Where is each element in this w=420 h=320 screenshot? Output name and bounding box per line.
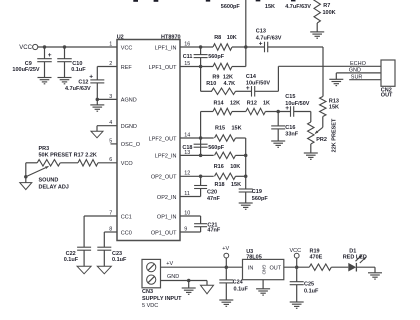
wire C22 to ground [83, 250, 85, 266]
capacitor C15 (electrolytic) [290, 106, 292, 117]
svg-text:4.7uF/63V: 4.7uF/63V [256, 36, 282, 42]
svg-text:OP1_OUT: OP1_OUT [151, 230, 177, 236]
wire AGND to ground [96, 99, 98, 105]
svg-text:C11: C11 [183, 54, 193, 60]
wire C23 to ground [103, 250, 105, 266]
wire C15 to PR2 [294, 111, 311, 113]
svg-text:0.1uF: 0.1uF [304, 288, 319, 294]
ground below C24 [219, 299, 233, 301]
resistor R8 [213, 44, 232, 50]
partial cut-off label fragment [154, 0, 159, 2]
svg-text:REF: REF [121, 65, 133, 71]
CN3 screw terminal 1 [147, 263, 156, 272]
svg-text:+V: +V [166, 261, 173, 267]
svg-text:OP2_OUT: OP2_OUT [151, 175, 177, 181]
ground below C10 [58, 77, 72, 79]
open-triangle ground DGND [91, 131, 103, 138]
capacitor C12 (electrolytic) [90, 79, 104, 81]
junction node R8/C13/top [244, 45, 248, 49]
junction node C9 [43, 45, 47, 49]
wire R19 to D1 [331, 266, 348, 268]
svg-text:LPF2_IN: LPF2_IN [155, 154, 177, 160]
svg-text:DELAY ADJ: DELAY ADJ [39, 184, 69, 190]
svg-text:C15: C15 [285, 94, 295, 100]
PR3 wiper arrow [26, 166, 49, 176]
capacitor C16 [271, 125, 285, 127]
svg-text:IN: IN [248, 265, 254, 271]
wire pin7 CC1 [84, 215, 117, 217]
junction node PR3 wiper [24, 175, 28, 179]
svg-text:GND: GND [167, 274, 179, 280]
ground below R7 [310, 31, 324, 33]
open-triangle ground sound adj [20, 183, 32, 190]
junction node pin15 [199, 65, 203, 69]
svg-text:50K PRESET R17 2.2K: 50K PRESET R17 2.2K [39, 152, 97, 158]
junction node C10 [63, 45, 67, 49]
svg-text:560pF: 560pF [252, 196, 269, 202]
ground below U3 [256, 288, 270, 290]
wire +V terminal down [225, 258, 227, 280]
svg-text:ECHO: ECHO [350, 61, 367, 67]
svg-text:R18: R18 [215, 182, 225, 188]
junction node pin13 left [199, 154, 203, 158]
wire C16 down [277, 112, 279, 126]
svg-text:4.7uF/63V: 4.7uF/63V [65, 86, 91, 92]
wire R15 to pin13 node [236, 137, 246, 139]
wire pin13 LPF2_IN [180, 154, 214, 156]
CN3 screw terminal 2 [147, 275, 156, 284]
vertical wire C11 between pin16 and pin15 [200, 47, 202, 55]
vertical wire pin13 to pin12 [245, 155, 247, 176]
junction node C16 [276, 110, 280, 114]
svg-text:15K: 15K [265, 4, 275, 10]
svg-text:4.7K: 4.7K [224, 81, 236, 87]
ground below D1 [368, 272, 382, 274]
open-triangle ground C22 [77, 266, 91, 274]
junction node C25 [295, 265, 299, 269]
svg-text:0.1uF: 0.1uF [71, 67, 86, 73]
wire C25 to ground [296, 285, 298, 302]
ground below C25 [290, 301, 304, 303]
svg-text:5 VDC: 5 VDC [142, 303, 158, 309]
svg-text:R8: R8 [214, 35, 221, 41]
capacitor C11 [194, 54, 208, 56]
svg-text:C22: C22 [66, 251, 76, 257]
wire C20 between pin12 and pin11 [200, 176, 202, 185]
wire VCC to pin1 [38, 46, 117, 48]
wire R14 to R12 [232, 111, 246, 113]
svg-text:VCC: VCC [121, 45, 133, 51]
svg-text:CC1: CC1 [121, 214, 132, 220]
svg-text:CC0: CC0 [121, 230, 132, 236]
svg-text:VCO: VCO [121, 161, 134, 167]
wire C19 top [245, 176, 247, 189]
svg-text:0.1uF: 0.1uF [64, 257, 79, 263]
wire pin2 REF [97, 66, 117, 68]
svg-text:LPF1_IN: LPF1_IN [155, 45, 177, 51]
svg-text:100uF/25V: 100uF/25V [12, 67, 40, 73]
wire pin6 VCO [98, 162, 117, 164]
resistor R7 [314, 0, 320, 23]
junction node pin14 [199, 136, 203, 140]
resistor R13 [320, 97, 326, 117]
svg-text:R7: R7 [323, 3, 330, 9]
capacitor C19 [239, 188, 253, 190]
svg-text:OUT: OUT [381, 92, 393, 98]
capacitor C13 (electrolytic) [264, 42, 266, 53]
svg-text:0.1uF: 0.1uF [234, 286, 249, 292]
svg-text:PR2: PR2 [316, 137, 327, 143]
ground below supply [182, 287, 196, 289]
VCC terminal bottom [294, 253, 299, 258]
svg-text:4.7uF/63V: 4.7uF/63V [285, 4, 311, 10]
wire SUR to CN2 [349, 79, 381, 81]
ground on GND net [329, 78, 343, 80]
capacitor C24 [219, 279, 233, 281]
wire pin12 OP2_OUT [180, 175, 214, 177]
ground below AGND [90, 104, 104, 106]
svg-text:RED LED: RED LED [343, 255, 367, 261]
LED D1 [348, 263, 356, 272]
svg-text:+: + [89, 73, 93, 80]
wire CN3 GND [161, 280, 208, 282]
svg-text:DGND: DGND [121, 124, 137, 130]
svg-text:560pF: 560pF [208, 145, 225, 151]
svg-text:PR3: PR3 [39, 146, 50, 152]
svg-text:R16: R16 [214, 164, 224, 170]
svg-text:OP2_IN: OP2_IN [157, 195, 177, 201]
svg-text:LPF2_OUT: LPF2_OUT [149, 136, 177, 142]
capacitor C10 [57, 58, 72, 60]
wire CN3 +V to U3 IN [161, 266, 243, 268]
svg-text:CN3: CN3 [142, 289, 153, 295]
capacitor C18 [194, 143, 208, 145]
svg-text:47nF: 47nF [207, 196, 220, 202]
wire C10 top [64, 47, 66, 59]
resistor R12 [246, 108, 266, 114]
resistor R10 [212, 88, 236, 94]
svg-text:GND: GND [261, 265, 266, 275]
wire pin4 DGND [97, 125, 117, 127]
capacitor C25 [290, 281, 304, 283]
capacitor C21 [194, 223, 207, 225]
svg-text:15K: 15K [232, 125, 242, 131]
wire R18 to C19 node [236, 175, 246, 177]
svg-text:15K: 15K [231, 182, 241, 188]
resistor R19 [309, 264, 331, 270]
junction node pin13 right [244, 154, 248, 158]
connector CN2 body [381, 60, 395, 86]
resistor R14 [213, 108, 232, 114]
resistor R16 [215, 152, 236, 158]
capacitor C9 (electrolytic) [37, 58, 52, 60]
wire R9 right end up to R8 junction [232, 66, 246, 68]
capacitor C22 [77, 246, 91, 248]
open-triangle ground C23 [97, 266, 111, 274]
svg-text:12K: 12K [230, 100, 240, 106]
svg-text:47nF: 47nF [207, 227, 220, 233]
ground below PR2 [304, 152, 318, 154]
svg-text:0.1uF: 0.1uF [112, 257, 127, 263]
svg-text:5600pF: 5600pF [221, 4, 241, 10]
pin5 OSC_O stub [111, 143, 118, 145]
svg-text:OUT: OUT [270, 265, 282, 271]
wire pin11 OP2_IN [180, 196, 201, 198]
wire U3 GND to ground [262, 280, 264, 289]
wire R13 to PR2 wiper [322, 117, 324, 128]
svg-text:C13: C13 [256, 29, 266, 35]
resistor R18 [215, 173, 236, 179]
svg-text:22K PRESET: 22K PRESET [332, 118, 338, 152]
wire GND net to CN2 [336, 72, 381, 74]
ground below C19 [239, 202, 253, 204]
wire C19 to ground [245, 192, 247, 203]
svg-text:15K: 15K [329, 105, 339, 111]
wire R7 to ground [316, 23, 318, 32]
svg-text:470E: 470E [310, 255, 323, 261]
IC U2 HT8970 body [117, 40, 180, 241]
svg-text:R13: R13 [329, 98, 339, 104]
svg-text:OSC_O: OSC_O [121, 142, 141, 148]
svg-text:100K: 100K [323, 10, 336, 16]
svg-text:HT8970: HT8970 [161, 35, 181, 41]
wire pin14 LPF2_OUT [180, 137, 214, 139]
connector CN3 body [142, 259, 161, 287]
wire R12 to C15 [265, 111, 290, 113]
svg-text:+V: +V [222, 246, 229, 252]
svg-text:560pF: 560pF [208, 54, 225, 60]
junction node pin12 [199, 175, 203, 179]
svg-text:C18: C18 [182, 145, 192, 151]
wire pin15 down to R10 branch [200, 67, 202, 92]
svg-text:R19: R19 [310, 248, 320, 254]
wire U3 OUT to R19 [284, 266, 310, 268]
wire C16 to ground [277, 129, 279, 141]
svg-text:C14: C14 [246, 74, 257, 80]
svg-text:SOUND: SOUND [39, 178, 59, 184]
wire LPF2 branch vertical [200, 112, 202, 156]
wire D1 to ground [356, 266, 375, 268]
ground below C9 [38, 77, 52, 79]
wire R17 to PR3 [60, 162, 78, 164]
svg-text:C23: C23 [112, 251, 122, 257]
wire pin10 OP1_IN [180, 215, 201, 217]
potentiometer PR2 [308, 122, 314, 144]
wire to sound-adj ground [25, 177, 27, 183]
wire C9 to ground [44, 62, 46, 78]
wire to supply ground [188, 281, 190, 289]
ground below C16 [271, 140, 285, 142]
junction node AGND [96, 98, 100, 102]
wire VCC terminal down [296, 258, 298, 282]
wire R8 to C13 [232, 46, 265, 48]
svg-text:OP1_IN: OP1_IN [157, 214, 177, 220]
resistor R17 [78, 160, 98, 166]
svg-text:78L05: 78L05 [246, 255, 262, 261]
svg-text:10K: 10K [230, 164, 240, 170]
wire C24 to ground [225, 283, 227, 300]
svg-text:U2: U2 [117, 35, 124, 41]
svg-text:+: + [48, 52, 52, 59]
svg-text:R12: R12 [247, 100, 257, 106]
svg-text:10uF/50V: 10uF/50V [246, 81, 270, 87]
wire PR2 to ground [310, 144, 312, 153]
svg-text:R15: R15 [215, 125, 225, 131]
potentiometer PR3 [37, 160, 60, 166]
open-triangle ground supply [206, 281, 208, 286]
wire pin9 OP1_OUT [180, 231, 201, 233]
svg-text:C16: C16 [285, 125, 295, 131]
wire C14 to ECHO line [255, 90, 279, 92]
svg-text:C12: C12 [78, 80, 88, 86]
svg-text:C19: C19 [252, 189, 262, 195]
wire pin8 CC0 [104, 231, 117, 233]
wire pin3 AGND [97, 98, 117, 100]
svg-text:R14: R14 [214, 100, 225, 106]
svg-text:C25: C25 [304, 281, 314, 287]
PR2 wiper arrow [315, 127, 323, 133]
wire R14 line [201, 111, 213, 113]
partial cut-off label fragment [291, 0, 296, 1]
svg-text:SUPPLY INPUT: SUPPLY INPUT [142, 296, 182, 302]
partial cut-off label fragment [133, 0, 138, 2]
svg-text:VCC: VCC [19, 45, 32, 51]
wire from top components to R8 junction [245, 0, 247, 47]
svg-text:D1: D1 [349, 248, 356, 254]
wire R16 to vertical [236, 154, 246, 156]
junction node C24 [225, 265, 229, 269]
wire pin16 LPF1_IN [180, 46, 213, 48]
svg-text:R10: R10 [206, 81, 216, 87]
regulator U3 body [243, 259, 284, 279]
svg-text:AGND: AGND [121, 98, 137, 104]
resistor R15 [215, 135, 236, 141]
svg-text:12K: 12K [223, 75, 233, 81]
capacitor C20 [194, 185, 207, 187]
svg-text:33nF: 33nF [285, 132, 298, 138]
partial cut-off label fragment R6 [256, 0, 261, 1]
capacitor C23 [97, 246, 111, 248]
wire PR3 left end down [26, 162, 37, 164]
+V terminal [224, 253, 229, 258]
wire C21 to pin9 [200, 227, 202, 232]
wire C12 to pin3 node [96, 83, 98, 100]
wire R10 to C14 [236, 90, 252, 92]
wire pin15 LPF1_OUT [180, 66, 213, 68]
wire C10 to ground [64, 62, 66, 78]
svg-text:10uF/50V: 10uF/50V [285, 101, 309, 107]
wire C9 top [44, 47, 46, 59]
LED light arrows [356, 255, 362, 261]
capacitor C14 (electrolytic) [251, 86, 253, 97]
wire C13 to right vertical [268, 46, 323, 48]
svg-text:R9: R9 [212, 75, 219, 81]
junction node supply ground [187, 279, 191, 283]
svg-text:10K: 10K [227, 35, 237, 41]
junction node C19 [244, 175, 248, 179]
junction node pin16/C11 [199, 45, 203, 49]
svg-text:1K: 1K [263, 100, 270, 106]
svg-text:C20: C20 [207, 190, 217, 196]
VCC terminal [33, 44, 38, 49]
svg-text:LPF1_OUT: LPF1_OUT [149, 65, 177, 71]
partial cut-off label fragment C8 [206, 0, 210, 2]
resistor R9 [213, 63, 232, 69]
